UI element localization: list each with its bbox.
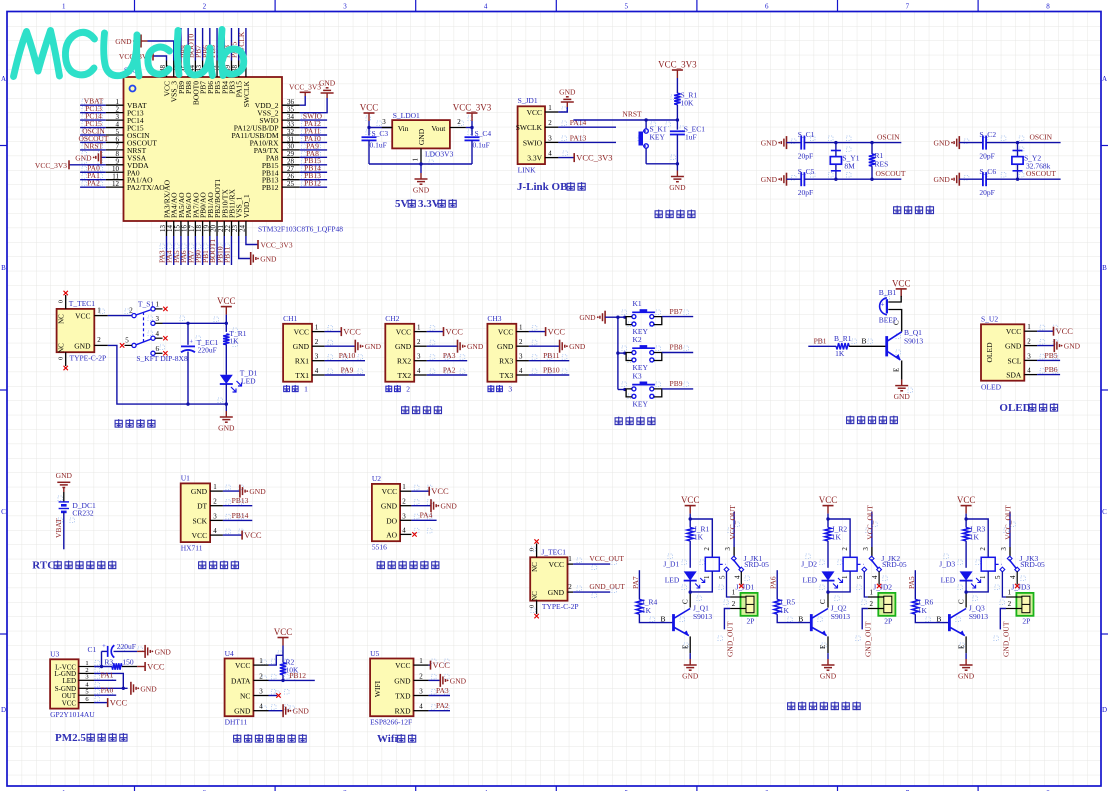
power VCC at pin6 [94,698,128,708]
svg-text:PB6: PB6 [1045,365,1058,374]
svg-text:NRST: NRST [84,141,104,150]
resistor B_R1 1K [834,334,852,358]
wire contact5 to connector channel 2 [864,571,868,597]
title key circuit [615,417,655,426]
capacitor S_C6 20pF [979,167,1060,197]
led T_D1 LED [220,369,258,406]
svg-text:J_JD1: J_JD1 [736,583,755,592]
svg-text:2P: 2P [1022,617,1030,626]
net label OSCOUT [875,169,905,178]
svg-text:1K: 1K [229,337,239,346]
svg-text:J_TEC1: J_TEC1 [541,547,566,556]
svg-text:K3: K3 [633,371,642,380]
power GND at mcu pin8 VSSA [75,151,105,164]
power VCC above buzzer [892,278,911,297]
svg-text:SRD-05: SRD-05 [744,560,769,569]
mcu bottom net wires and labels [158,236,232,265]
svg-text:2: 2 [419,672,423,680]
svg-text:C: C [681,599,689,604]
svg-text:1: 1 [419,657,423,665]
resistor J_R4 1K [636,598,672,624]
svg-text:J_D2: J_D2 [801,560,817,569]
no-connect at 5516 pin4 [412,532,416,536]
title power circuit [115,419,155,428]
svg-text:VCC: VCC [244,530,262,540]
svg-text:S_C3: S_C3 [372,129,389,138]
svg-text:B_B1: B_B1 [879,288,897,297]
power VCC at CH3 pin1 [529,327,566,337]
svg-text:4: 4 [519,367,523,375]
power GND at S-GND [131,682,157,695]
svg-text:2: 2 [979,547,987,551]
power GND at S_C6 [934,173,983,186]
svg-text:1: 1 [402,483,406,491]
mcu right net wires and labels [300,112,327,188]
svg-text:PA2: PA2 [436,701,449,710]
connector CH3 serial header [487,314,529,382]
led J_D3 LED [939,560,980,594]
power VCC_3V3 at mcu pin36 VDD_2 [289,82,321,105]
led J_D1 LED [663,560,704,594]
svg-text:S9013: S9013 [831,612,850,621]
svg-text:VCC_3V3: VCC_3V3 [453,103,492,113]
power GND for keys [579,311,618,324]
svg-text:1: 1 [703,575,711,579]
wire TEC1 GND down to rail [108,345,227,405]
svg-text:LED: LED [665,576,680,585]
svg-text:6: 6 [765,3,769,11]
svg-text:2: 2 [519,338,523,346]
svg-text:GND: GND [1005,342,1022,351]
wire emitter channel 2 [819,636,828,659]
svg-text:1K: 1K [780,606,790,615]
wire L-GND to S-GND to gnd [94,673,128,690]
svg-text:B_R1: B_R1 [834,334,852,343]
power GND below buzzer [894,380,911,402]
svg-text:U4: U4 [225,649,234,658]
svg-text:LED: LED [241,377,256,386]
svg-text:8M: 8M [844,161,855,170]
svg-text:S9013: S9013 [904,336,923,345]
svg-text:1: 1 [1027,323,1031,331]
svg-text:4: 4 [417,367,421,375]
title Wifi module [377,733,416,745]
net PA1 at LED pin [94,671,116,681]
svg-text:GND: GND [958,672,975,681]
svg-text:PA1: PA1 [101,671,114,680]
regulator S_LDO1 LDO3V3 [382,111,466,164]
svg-text:K2: K2 [633,335,642,344]
svg-text:T_S1: T_S1 [138,300,155,309]
svg-text:SWCLK: SWCLK [242,80,251,107]
resistor J_R2 1K [825,525,848,568]
title temperature humidity module [234,734,307,743]
svg-text:VCC: VCC [819,495,838,505]
connector S_JD1 LINK [516,96,559,174]
svg-text:RXD: RXD [395,707,411,716]
wire Vout to VCC_3V3 and C4 [466,121,474,136]
power VCC at LDO input [360,103,379,122]
svg-text:4: 4 [548,150,552,158]
mcu U1 top pins 37-48 [159,61,251,108]
title PM2.5 detect module [55,732,127,744]
svg-text:TX3: TX3 [500,371,514,380]
svg-text:5516: 5516 [372,543,387,552]
svg-text:GND: GND [467,342,484,351]
svg-text:VCC_3V3: VCC_3V3 [261,241,293,250]
svg-text:1: 1 [519,324,523,332]
svg-text:4: 4 [871,575,879,579]
power VCC at CH2 pin1 [427,327,464,337]
capacitor T_EC1 220uF [181,323,219,404]
svg-text:+: + [189,339,193,346]
svg-text:2P: 2P [884,617,892,626]
svg-text:E: E [893,368,901,372]
svg-text:1: 1 [97,306,101,314]
power GND at 5516 pin2 [411,499,457,512]
svg-text:PB9: PB9 [670,379,683,388]
svg-text:0: 0 [58,300,65,303]
relay J_JK3 SRD-05 coil [966,547,1045,592]
svg-text:PB13: PB13 [232,496,249,505]
svg-text:220uF: 220uF [198,345,217,354]
svg-text:+: + [102,643,106,650]
wire LDO ground bus [369,162,472,173]
label serial port 2 [386,385,410,394]
svg-text:DATA: DATA [231,676,251,685]
svg-text:5: 5 [718,575,726,579]
svg-text:3: 3 [213,512,217,520]
net PA3 at ESP TXD [429,686,450,696]
svg-text:GP2Y1014AU: GP2Y1014AU [50,710,95,719]
power VCC_3V3 above reset [658,60,697,79]
power VCC channel 1 [681,495,700,513]
power VCC above rail [217,296,236,315]
mcu U1 body STM32F103C8T6_LQFP48 [124,66,344,234]
svg-text:1K: 1K [642,606,652,615]
svg-text:C1: C1 [88,645,97,654]
svg-text:4: 4 [484,3,488,11]
module U3 GP2Y1014AU [50,650,95,719]
svg-text:OLED: OLED [999,402,1030,414]
svg-text:LED: LED [62,677,76,685]
svg-text:4: 4 [733,575,741,579]
svg-text:3: 3 [315,353,319,361]
power GND below power circuit [218,404,235,432]
title crystal circuit [894,206,934,215]
wire collector channel 3 [957,592,966,608]
svg-text:D: D [1102,706,1107,714]
svg-text:7: 7 [906,3,910,11]
svg-text:1K: 1K [832,533,842,542]
net PB11 at CH3 pin3 [529,351,569,361]
title weighing module [199,561,239,570]
svg-text:6: 6 [156,345,160,353]
power VCC above DHT11 [274,627,293,646]
svg-text:PA3: PA3 [443,351,456,360]
label serial port 1 [284,385,308,394]
capacitor C1 220uF [88,642,138,658]
svg-text:PB11: PB11 [222,246,231,263]
svg-text:S9013: S9013 [969,612,988,621]
crystal S_Y2 32.768k [1012,141,1051,181]
svg-text:U1: U1 [181,474,190,483]
svg-text:20pF: 20pF [979,188,994,197]
power VCC_3V3 at mcu pin9 VDDA [35,160,106,170]
svg-text:VCC: VCC [527,108,542,117]
transistor J_Q3 S9013 [949,604,988,637]
svg-text:OSCOUT: OSCOUT [1026,169,1056,178]
svg-text:Vin: Vin [398,124,409,133]
svg-text:GND: GND [934,139,951,148]
svg-text:2: 2 [548,119,552,127]
svg-text:VCC_3V3: VCC_3V3 [289,82,321,91]
svg-text:TYPE-C-2P: TYPE-C-2P [542,602,579,611]
wire collector channel 2 [819,592,828,608]
resistor J_R3 1K [963,525,986,568]
svg-text:GND: GND [682,672,699,681]
svg-text:GND: GND [394,676,411,685]
svg-text:2: 2 [703,547,711,551]
svg-text:GND: GND [395,342,412,351]
wire and net PA14 at JD1 pin2 [558,118,616,127]
svg-text:GND: GND [218,424,235,433]
svg-text:2: 2 [213,498,217,506]
no-connect marks on J_TEC1 [534,539,538,618]
svg-text:T_TEC1: T_TEC1 [69,299,95,308]
title buzzer circuit [847,416,898,425]
power VCC at CH1 pin1 [325,327,362,337]
net GND_OUT at J_TEC1 pin2 [573,582,625,592]
svg-text:GND_OUT: GND_OUT [589,582,625,591]
title OLED display [999,402,1057,414]
svg-text:GND: GND [761,139,778,148]
svg-text:25: 25 [287,180,295,188]
connector J_JD2 2P [868,583,895,626]
wire VCC node channel 1 [689,514,713,558]
crystal S_Y1 8M [830,141,859,181]
svg-text:20pF: 20pF [979,152,994,161]
pushbutton S_K1 KEY [639,120,667,164]
transistor J_Q1 S9013 [674,604,713,637]
svg-text:VCC: VCC [343,327,361,337]
display S_U2 OLED [981,315,1037,392]
wire key/cap to gnd [646,162,679,170]
svg-text:VCC: VCC [382,487,397,496]
svg-text:VCC: VCC [548,327,566,337]
wire emitter to gnd [893,361,902,380]
svg-text:OLED: OLED [981,383,1002,392]
svg-text:SCK: SCK [193,516,208,525]
net PB10 at CH3 pin4 [529,365,569,375]
svg-text:LED: LED [803,576,818,585]
svg-text:VCC: VCC [395,661,410,670]
svg-text:3: 3 [519,353,523,361]
power VCC_3V3 at JD1 pin4 [558,153,612,163]
svg-text:0: 0 [58,357,65,360]
wire emitter channel 1 [681,636,690,659]
svg-text:SRD-05: SRD-05 [1020,560,1045,569]
svg-text:VCC: VCC [274,627,293,637]
svg-text:NC: NC [240,692,250,701]
connector J_JD3 2P [1006,583,1034,626]
svg-text:GND: GND [820,672,837,681]
net VCC_OUT at J_TEC1 pin1 [573,554,624,564]
battery D_DC1 CR232 [59,501,96,518]
svg-text:10K: 10K [681,99,695,108]
svg-text:U2: U2 [372,474,381,483]
connector T_TEC1 TYPE-C-2P [57,295,108,366]
svg-text:C: C [1,508,6,516]
svg-text:GND: GND [761,175,778,184]
svg-text:STM32F103C8T6_LQFP48: STM32F103C8T6_LQFP48 [258,225,343,234]
svg-text:VCC: VCC [957,495,976,505]
svg-text:4: 4 [259,703,263,711]
wire key ground bus [616,316,619,390]
power GND below reset [669,171,686,193]
svg-text:SRD-05: SRD-05 [882,560,907,569]
svg-text:PA5: PA5 [907,576,916,589]
svg-text:DT: DT [197,502,207,511]
svg-text:C: C [1102,508,1107,516]
svg-text:VCC: VCC [294,328,309,337]
svg-text:RTC: RTC [32,560,55,572]
svg-text:4: 4 [1027,367,1031,375]
svg-text:1: 1 [417,324,421,332]
mcu left net wires and labels [78,97,108,188]
svg-text:VCC_OUT: VCC_OUT [866,505,875,540]
svg-text:3: 3 [419,688,423,696]
svg-text:GND_OUT: GND_OUT [726,621,735,657]
svg-text:VBAT: VBAT [54,518,63,538]
power GND under LDO [413,173,430,195]
svg-text:20pF: 20pF [798,188,813,197]
wire VCC node channel 2 [826,514,850,558]
svg-text:220uF: 220uF [117,642,136,651]
power VCC_3V3 at mcu pin24 VDD_1 [246,236,293,250]
module U1 HX711 [181,474,223,553]
svg-text:S_KFT DIP-8X8: S_KFT DIP-8X8 [136,354,188,363]
relay J_JK2 SRD-05 coil [828,547,907,592]
svg-text:GND: GND [579,313,596,322]
wire gnd to battery [63,492,65,502]
svg-text:1: 1 [213,483,217,491]
svg-text:2: 2 [568,583,572,591]
wire collector channel 1 [681,592,690,608]
svg-text:GND: GND [115,37,132,46]
svg-text:VCC: VCC [217,296,236,306]
power VCC_3V3 at mcu pin48 VCC [119,52,167,62]
svg-text:PA6: PA6 [769,576,778,589]
svg-text:B: B [936,615,941,624]
svg-text:GND: GND [56,471,73,480]
power VCC at HX711 pin4 [223,530,262,540]
svg-text:PA3: PA3 [436,686,449,695]
net PB6 at OLED pin4 [1037,365,1060,375]
transistor B_Q1 S9013 [887,328,924,360]
buzzer B_B1 BEEP [879,288,897,325]
wire contact4 channel 3 [1015,571,1019,588]
mcu U1 bottom pins 13-24 [159,179,251,236]
net PB9 at K3 [662,379,693,389]
svg-text:GND: GND [934,175,951,184]
net PA10 at CH1 pin3 [325,351,365,361]
svg-text:GND: GND [497,342,514,351]
svg-text:PA7: PA7 [631,576,640,589]
wire VCC_3V3 to R1 [676,78,678,93]
net label OSCIN [877,133,900,142]
wire contact4 channel 1 [739,571,743,588]
svg-text:3: 3 [85,674,88,681]
svg-text:1K: 1K [918,606,928,615]
svg-text:J-Link OB: J-Link OB [517,181,568,193]
power GND at HX711 pin1 [223,485,266,498]
svg-text:4: 4 [1009,575,1017,579]
svg-text:4: 4 [213,527,217,535]
svg-text:12: 12 [112,180,120,188]
capacitor S_C1 20pF [798,130,902,160]
svg-text:A: A [1,75,6,83]
wire VCC node channel 3 [964,514,988,558]
svg-text:NC: NC [58,314,66,324]
svg-text:GND: GND [365,342,382,351]
resistor R2 10K [280,657,299,680]
power VCC at OLED pin1 [1037,326,1073,336]
svg-text:DHT11: DHT11 [225,718,248,727]
svg-text:1: 1 [304,385,308,394]
svg-text:2P: 2P [747,617,755,626]
svg-text:+: + [881,301,885,309]
power GND at ESP pin2 [429,674,467,687]
net PA5 input wire channel 3 [907,570,916,599]
connector CH1 serial header [283,314,325,382]
svg-text:S_C1: S_C1 [798,130,815,139]
svg-text:NC: NC [58,343,66,353]
svg-text:GND: GND [569,342,586,351]
power GND at CH1 pin2 [325,340,382,353]
svg-text:VCC: VCC [1056,326,1074,336]
capacitor S_C4 0.1uF [465,129,492,164]
net VCC_OUT channel 3 [1004,505,1013,547]
title serial circuit [402,406,442,415]
wire and net PA13 at JD1 pin3 [558,133,616,142]
svg-text:TXD: TXD [395,692,411,701]
power VCC at ESP pin1 [429,660,451,670]
svg-text:3.3V: 3.3V [418,198,440,210]
svg-text:GND_OUT: GND_OUT [863,621,872,657]
power GND at DHT11 pin4 [269,704,310,717]
svg-text:4: 4 [402,526,406,534]
power VCC at 5516 pin1 [411,486,449,496]
net PB5 at OLED pin3 [1037,351,1060,361]
svg-text:2: 2 [417,338,421,346]
svg-text:GND: GND [75,153,92,162]
no-connect marks on TEC1 [64,291,68,370]
power VCC channel 2 [819,495,838,513]
svg-text:PB5: PB5 [1045,351,1058,360]
svg-text:J_D1: J_D1 [663,560,679,569]
svg-text:2: 2 [841,547,849,551]
net PA2 at ESP RXD [429,701,450,711]
svg-text:DO: DO [386,516,397,525]
svg-text:GND: GND [894,392,911,401]
wire buzzer to collector [888,310,901,332]
svg-text:2: 2 [457,118,461,126]
svg-text:20pF: 20pF [798,152,813,161]
resistor S_R1 10K [674,91,697,108]
svg-text:Wifi: Wifi [377,733,398,745]
svg-text:VCC_3V3: VCC_3V3 [658,60,697,70]
